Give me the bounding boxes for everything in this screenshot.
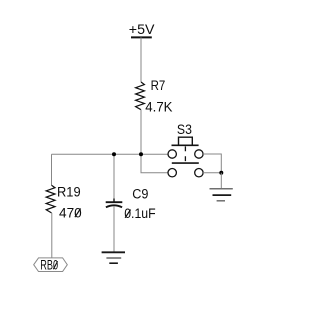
wire C9 to ground [113,207,115,253]
pin 3 circle [195,150,203,158]
wire +5V to R7 [140,37,142,82]
wire S3 pin4 to junction [203,172,221,174]
slash of zero in 470 [75,209,81,218]
wire junction to ground [220,173,222,189]
junction node at R7 bottom [139,152,143,156]
svg-text:C9: C9 [132,187,148,202]
net label RB0 [34,258,68,273]
wire R7 to node [140,110,142,155]
slash of zero in 0.1uF [125,210,131,218]
plunger dashed line [184,146,186,161]
svg-text:0.1uF: 0.1uF [124,206,156,221]
ground below C9 [102,252,125,263]
slash of zero in RB0 [53,261,57,269]
svg-text:+5V: +5V [129,21,155,37]
switch S3 [168,122,203,177]
resistor R19 [46,185,82,221]
svg-text:R19: R19 [57,185,81,200]
resistor R7 [136,78,173,115]
wire S3 pin3 to right rail [203,154,221,173]
power symbol +5V [129,21,155,37]
wire R19 to RB0 [51,213,53,258]
pin 2 circle [168,169,176,177]
pin 4 circle [195,169,203,177]
junction node right rail [219,171,223,175]
junction node at C9 tap [112,152,116,156]
wire node to S3 lower-left pin [141,154,168,172]
capacitor C9 [106,187,156,222]
button actuator [179,137,193,145]
wire C9 stem [113,154,115,201]
svg-text:S3: S3 [177,122,192,137]
actuator base bar [172,144,199,146]
wire left vertical to R19 [51,154,53,185]
ground right of S3 [210,189,233,201]
svg-text:4.7K: 4.7K [145,100,172,115]
pin 1 circle [168,150,176,158]
contact bar [172,162,199,164]
wire main horizontal net [52,153,169,155]
svg-text:R7: R7 [151,78,166,93]
